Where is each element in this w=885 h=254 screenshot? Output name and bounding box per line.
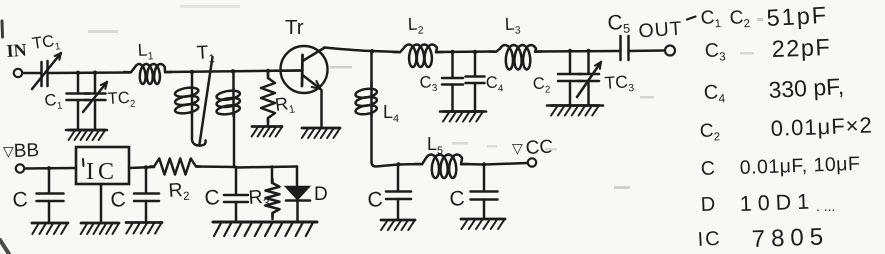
svg-text:7805: 7805 <box>751 223 829 253</box>
svg-text:IN: IN <box>6 40 27 61</box>
svg-text:C: C <box>449 187 466 211</box>
svg-text:L1: L1 <box>137 39 154 63</box>
svg-text:CC: CC <box>525 137 554 159</box>
svg-text:L2: L2 <box>407 13 424 37</box>
svg-text:T1: T1 <box>196 42 215 66</box>
svg-text:IC: IC <box>86 159 118 185</box>
svg-text:▽: ▽ <box>3 143 14 159</box>
svg-text:C: C <box>12 188 29 212</box>
svg-text:BB: BB <box>13 140 39 162</box>
svg-text:C1: C1 <box>700 7 721 31</box>
svg-text:TC2: TC2 <box>107 89 136 111</box>
svg-text:. ...: . ... <box>816 198 835 214</box>
svg-text:C2: C2 <box>729 7 750 31</box>
svg-text:R2: R2 <box>168 179 190 204</box>
svg-text:C: C <box>204 186 221 210</box>
svg-text:0.01μF×2: 0.01μF×2 <box>770 112 873 141</box>
svg-text:TC1: TC1 <box>31 31 62 56</box>
svg-text:C2: C2 <box>699 120 720 144</box>
svg-text:D: D <box>314 184 328 205</box>
svg-text:C: C <box>110 188 127 212</box>
svg-text:C5: C5 <box>607 10 631 36</box>
svg-text:IC: IC <box>697 228 722 251</box>
svg-text:C2: C2 <box>533 74 551 96</box>
svg-text:0.01μF, 10μF: 0.01μF, 10μF <box>739 153 860 179</box>
svg-text:C4: C4 <box>486 73 505 95</box>
svg-text:L5: L5 <box>427 134 443 157</box>
svg-text:R1: R1 <box>274 93 296 118</box>
svg-text:C3: C3 <box>419 73 438 95</box>
svg-text:51pF: 51pF <box>766 2 829 31</box>
svg-text:C: C <box>367 188 384 212</box>
svg-text:330 pF,: 330 pF, <box>768 73 845 103</box>
svg-text:C: C <box>700 158 715 180</box>
svg-text:TC3: TC3 <box>604 71 635 96</box>
svg-text:L4: L4 <box>383 102 399 125</box>
svg-text:▽: ▽ <box>512 140 523 156</box>
svg-text:C1: C1 <box>44 90 64 112</box>
svg-text:10D1: 10D1 <box>739 189 815 216</box>
svg-text:C4: C4 <box>703 81 725 106</box>
svg-text:22pF: 22pF <box>771 34 831 62</box>
svg-text:Tr: Tr <box>285 16 304 39</box>
svg-text:D: D <box>700 194 715 216</box>
svg-text:L3: L3 <box>504 13 521 37</box>
svg-text:C3: C3 <box>704 39 725 64</box>
svg-text:OUT: OUT <box>638 17 684 42</box>
